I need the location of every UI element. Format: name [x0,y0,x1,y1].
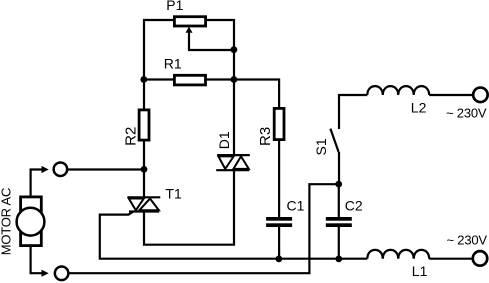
wire: motor top terminal to left rail [62,168,144,170]
inductor L1 [367,250,429,259]
switch S1 blade [330,129,338,152]
mains bottom terminal circle [473,251,488,266]
label L1 [412,263,428,279]
arrow at motor bottom wire [42,270,49,277]
label R3 [257,127,274,146]
wire: motor bottom lead [31,247,46,273]
wire: bottom bus from motor bottom terminal, riser to S1 junction [62,184,339,273]
wire: T1 bottom lead, corner right, up to D1 bottom [144,170,234,245]
potentiometer P1 wiper arrow [186,27,193,33]
label S1 [313,138,329,155]
label R2 [123,127,140,146]
motor M body [17,197,45,246]
wire: C2 bottom lead [338,227,340,259]
resistor R2 body [139,110,149,140]
wire: P1 wiper down and right to rail [189,32,234,51]
resistor R3 body [274,108,284,139]
svg-text:D1: D1 [216,131,232,149]
wire: R1 row from left rail to R3 top corner [144,80,279,218]
svg-text:MOTOR AC: MOTOR AC [0,188,13,256]
label ~230V top [446,106,487,121]
svg-text:~ 230V: ~ 230V [447,233,488,248]
label R1 [164,55,182,71]
potentiometer P1 body [174,17,205,26]
junction: C2 bottom / bus [335,256,342,263]
junction: wiper / right rail [231,46,238,53]
label C2 [345,197,363,213]
label L2 [411,99,427,115]
wire: P1 left lead and left rail down to T1 [144,20,173,197]
wire: C2 top lead [338,184,340,217]
wire: S1 top lead and corner to L2 [339,95,367,129]
label C1 [287,197,305,213]
wire: L1 to bottom mains terminal [429,258,472,260]
svg-text:R3: R3 [257,127,274,146]
wire: T1 gate, gate drop, capacitor bottom bus to L1 [100,212,368,259]
wire: S1 bottom lead [338,152,340,184]
junction: R1 right / right rail [231,76,238,83]
svg-text:C1: C1 [287,197,305,213]
junction: C1 bottom / bus [276,256,283,263]
label MOTOR AC [0,188,13,256]
triac T1 [127,197,160,211]
svg-text:L2: L2 [411,99,427,115]
wire: D1 top lead, right rail up, P1 right lead [207,20,234,155]
label ~230V bottom [447,233,488,248]
wire: L2 to top mains terminal [429,94,472,96]
junction: S1 bottom / C2 top / riser [335,181,342,188]
label D1 [216,131,232,149]
junction: motor top wire / left rail [141,166,148,173]
mains top terminal circle [473,88,488,103]
wire: C1 bottom lead [278,227,280,259]
wire: motor top lead [31,170,46,196]
motor top terminal circle [54,162,68,176]
svg-text:S1: S1 [313,138,329,155]
capacitor C1 plates [266,217,292,227]
label T1 [165,185,182,201]
capacitor C2 plates [326,217,352,227]
svg-text:R2: R2 [123,127,140,146]
svg-text:T1: T1 [165,185,182,201]
resistor R1 body [174,75,205,85]
svg-text:R1: R1 [164,55,182,71]
junction: R1 left / left rail [140,76,147,83]
diac D1 [216,155,250,170]
svg-text:~ 230V: ~ 230V [446,106,487,121]
arrow at motor top wire [42,166,49,173]
label P1 [166,0,183,13]
svg-text:L1: L1 [412,263,428,279]
motor bottom terminal circle [55,267,69,281]
svg-text:C2: C2 [345,197,363,213]
svg-text:P1: P1 [166,0,183,13]
inductor L2 [367,86,429,95]
